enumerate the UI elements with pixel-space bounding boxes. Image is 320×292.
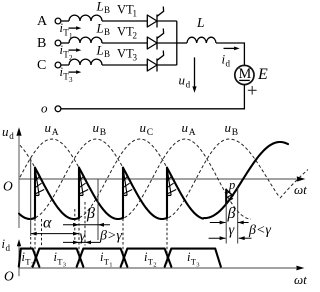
wire A terminal to LB1 — [61, 20, 69, 22]
svg-text:L: L — [96, 0, 104, 14]
svg-text:3: 3 — [196, 261, 200, 268]
svg-text:β: β — [86, 205, 95, 222]
svg-text:d: d — [6, 243, 11, 253]
thyristor VT2 — [147, 37, 157, 49]
svg-text:B: B — [104, 49, 110, 59]
svg-text:p: p — [228, 178, 235, 192]
svg-text:3: 3 — [133, 53, 138, 63]
wire LB3 to VT3 — [102, 64, 147, 66]
svg-text:u: u — [182, 120, 189, 135]
id axis (vertical) — [18, 244, 20, 276]
svg-text:O: O — [4, 269, 14, 284]
svg-text:L: L — [96, 43, 104, 58]
svg-text:u: u — [179, 73, 186, 88]
wire VT1 to bus — [157, 20, 177, 22]
ud axis (vertical) — [18, 136, 20, 228]
wire L to motor corner — [216, 43, 244, 65]
svg-text:α: α — [43, 215, 52, 232]
current arrow id — [224, 47, 237, 49]
svg-text:B: B — [100, 128, 106, 138]
dashed sine uC third rising tail — [280, 170, 308, 199]
commutation notch hatch 3 — [123, 169, 132, 196]
svg-text:ωt: ωt — [294, 182, 307, 197]
ud waveform scallop 4 and failure rise — [167, 142, 288, 219]
svg-text:u: u — [2, 124, 9, 139]
dashed sine phase peak 52 — [20, 139, 118, 219]
dashed firing line 2 — [78, 219, 80, 266]
svg-text:γ: γ — [229, 223, 236, 239]
ud waveform scallop 1 — [35, 168, 79, 219]
svg-text:B: B — [104, 5, 110, 15]
failed commutation wedge — [225, 190, 227, 204]
svg-text:β: β — [227, 205, 236, 222]
beta end line (left group) — [97, 180, 99, 241]
node C terminal — [55, 62, 61, 68]
wire bus to inductor L — [177, 42, 187, 44]
wire motor to common line — [61, 85, 244, 109]
node A terminal — [55, 18, 61, 24]
commutation notch hatch 4 — [167, 169, 176, 196]
inductor LB1 — [69, 15, 102, 21]
svg-text:B: B — [104, 27, 110, 37]
svg-text:o: o — [41, 101, 48, 116]
svg-text:L: L — [196, 15, 205, 30]
cathode bus wire — [176, 21, 178, 65]
failure beta line — [237, 188, 239, 244]
svg-text:C: C — [37, 58, 46, 73]
current arrow iT3 — [69, 71, 78, 73]
svg-text:3: 3 — [69, 76, 73, 84]
thyristor VT3 — [147, 59, 157, 71]
dashed firing line 3 — [122, 219, 124, 266]
dashed firing line 4 — [166, 219, 168, 266]
current arrow iT1 — [69, 27, 78, 29]
svg-text:1: 1 — [109, 261, 112, 268]
dimension beta (right, outside arrows) — [210, 222, 226, 224]
omega-t axis of ud plot — [19, 178, 296, 180]
ud waveform jump at firing 167 — [166, 168, 168, 218]
svg-text:ωt: ωt — [294, 272, 307, 287]
dimension gamma (right, outside arrows) — [209, 237, 226, 239]
svg-text:2: 2 — [133, 31, 138, 41]
label + polarity — [248, 86, 257, 95]
dashed crossing line 2 — [74, 209, 76, 244]
dashed sine uB second (stretched) — [163, 139, 279, 219]
ud waveform jump at firing 35 — [34, 168, 36, 218]
ud waveform segment 0 (uB tail) — [19, 214, 35, 219]
ud waveform scallop 2 — [79, 168, 123, 219]
wire C terminal to LB3 — [61, 64, 69, 66]
wire LB1 to VT1 — [102, 20, 147, 22]
dashed sine phase peak 96 — [30, 139, 162, 219]
svg-text:β>γ: β>γ — [99, 228, 122, 243]
wire B terminal to LB2 — [61, 42, 69, 44]
node o terminal — [55, 106, 61, 112]
inductor L — [187, 37, 216, 43]
wire VT2 to bus — [157, 42, 177, 44]
failure firing line — [225, 204, 227, 244]
id pulse iT3 first — [33, 249, 84, 267]
current arrow iT2 — [69, 49, 78, 51]
svg-text:d: d — [9, 131, 14, 141]
wire VT3 to bus — [157, 64, 177, 66]
id pulse iT1 — [77, 249, 128, 267]
inductor LB2 — [69, 37, 102, 43]
dimension row A (alpha leader / beta outside arrows) — [63, 224, 110, 226]
svg-text:VT: VT — [117, 25, 134, 39]
id pulse iT2 first — [19, 249, 40, 267]
svg-text:u: u — [225, 120, 232, 135]
svg-text:u: u — [45, 120, 52, 135]
svg-text:3: 3 — [63, 261, 67, 268]
svg-text:B: B — [37, 36, 46, 51]
svg-text:A: A — [37, 14, 48, 29]
motor M — [235, 65, 254, 84]
inductor LB3 — [69, 59, 102, 65]
svg-text:L: L — [96, 21, 104, 36]
svg-text:E: E — [257, 66, 268, 83]
svg-text:VT: VT — [117, 3, 134, 17]
svg-text:2: 2 — [153, 261, 156, 268]
id pulse iT3 second — [165, 249, 221, 267]
ud waveform jump at firing 123 — [122, 168, 124, 218]
svg-text:VT: VT — [117, 47, 134, 61]
svg-text:A: A — [52, 128, 59, 138]
node B terminal — [55, 40, 61, 46]
svg-text:1: 1 — [133, 9, 138, 19]
commutation notch hatch 1 — [35, 169, 44, 196]
svg-text:d: d — [226, 59, 231, 69]
svg-text:M: M — [239, 66, 252, 82]
svg-text:O: O — [3, 179, 13, 194]
svg-text:B: B — [232, 128, 238, 138]
dashed firing line 1 — [34, 219, 36, 266]
svg-text:u: u — [93, 120, 100, 135]
thyristor VT1 — [147, 15, 157, 27]
dashed sine phase peak 140 — [74, 139, 206, 219]
svg-text:d: d — [186, 80, 191, 90]
dashed overlap end line 2 — [84, 202, 86, 246]
dimension row B (alpha span) — [31, 233, 79, 235]
commutation notch hatch 2 — [79, 169, 88, 196]
id pulse iT2 second — [121, 249, 172, 267]
dashed sine phase peak 8 — [20, 145, 74, 219]
dashed overlap end line 1 — [41, 219, 43, 246]
voltage arrow ud — [194, 57, 196, 87]
dashed sine phase peak 185 — [119, 139, 251, 219]
ud waveform scallop 3 — [123, 168, 167, 219]
natural commutation line (alpha start) — [30, 158, 32, 237]
wire LB2 to VT2 — [102, 42, 147, 44]
svg-text:A: A — [189, 128, 196, 138]
svg-text:u: u — [140, 120, 147, 135]
svg-text:β<γ: β<γ — [248, 223, 271, 238]
omega-t axis of id plot — [19, 267, 296, 269]
dimension row C (gamma outside arrows) — [63, 241, 100, 243]
svg-text:C: C — [147, 128, 153, 138]
ud waveform jump at firing 79 — [78, 168, 80, 218]
